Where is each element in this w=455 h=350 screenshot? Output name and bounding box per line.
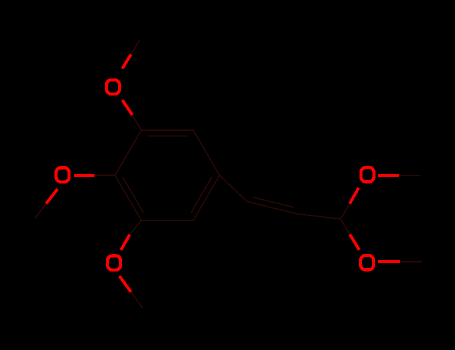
ring edge C4-C5	[115, 130, 141, 175]
ObR label (acetal lower oxygen)	[361, 256, 374, 270]
red half of bond OtR-MeTR	[378, 174, 399, 177]
red half of bond C5-O5	[122, 100, 132, 115]
red half of bond O3-Me3	[119, 276, 131, 292]
ring edge C2-C3	[141, 219, 193, 221]
dark half of bond O3-Me3	[131, 292, 143, 308]
dark half of bond ObR-MeBR	[400, 261, 422, 263]
O5 label (top-left methoxy)	[107, 80, 120, 94]
red half of bond Cc-ObR	[350, 234, 360, 250]
dark half of bond Cc-ObR	[341, 219, 350, 234]
dark half of bond C3-O3	[130, 220, 142, 234]
dark half of bond O5-Me5	[131, 40, 140, 54]
red half of bond C4-O4	[74, 174, 94, 177]
dark half of bond O4-Me4	[35, 204, 46, 219]
ring double bond inner line C3=C4	[123, 178, 143, 213]
OtR label (acetal upper oxygen)	[361, 168, 374, 182]
benzene ring (dark skeleton)	[35, 40, 422, 308]
bond Ca=Cb second line	[253, 197, 293, 207]
red half of bond ObR-MeBR	[378, 260, 400, 263]
bright red half-bonds near oxygens	[46, 54, 400, 292]
dark half of bond C5-O5	[132, 115, 141, 130]
O3 label (bottom-left methoxy)	[108, 256, 121, 270]
dark half of bond OtR-MeTR	[399, 174, 420, 176]
ring edge C1-C2	[193, 175, 219, 220]
dark half of bond Cc-OtR	[341, 204, 350, 219]
bond C1-Ca (chain start)	[220, 175, 248, 201]
red half of bond Cc-OtR	[350, 188, 359, 204]
red half of bond C3-O3	[121, 235, 130, 250]
dark half of bond C4-O4	[95, 174, 115, 176]
ring double bond inner line C1=C2	[191, 178, 211, 213]
ring edge C3-C4	[115, 175, 141, 220]
red half of bond O4-Me4	[46, 189, 57, 204]
ring edge C6-C1	[193, 130, 219, 175]
red half of bond O5-Me5	[122, 54, 131, 68]
bond Ca=Cb main line	[247, 202, 297, 214]
oxygen atom labels	[56, 80, 374, 270]
ring double bond inner line C5=C6	[147, 135, 187, 137]
O4 label (left methoxy)	[56, 168, 69, 182]
bond Cb-Cc (to acetal carbon)	[297, 214, 341, 219]
ring edge C5-C6	[141, 129, 193, 131]
